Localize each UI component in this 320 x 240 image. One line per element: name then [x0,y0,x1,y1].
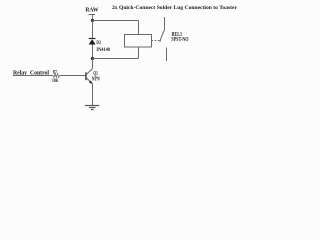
svg-text:D3: D3 [96,40,101,46]
transistor Q1 collector diagonal [86,69,92,75]
wire diode anode down to junction 2 [92,45,94,59]
junction at RAW node [91,19,94,22]
transistor Q1 emitter arrow [89,81,93,84]
svg-text:2x Quick-Connect Solder Lug Co: 2x Quick-Connect Solder Lug Connection t… [112,5,238,11]
relay REL1 coil box [125,35,152,48]
relay actuation dashed link [152,40,160,42]
svg-text:IN4148: IN4148 [96,47,110,53]
svg-text:NPN: NPN [92,77,100,83]
transistor Q1 emitter diagonal [86,78,92,84]
relay contact top terminal (solder lug) [164,17,166,29]
diode D3 cathode bar [89,38,96,40]
wire resistor to transistor base [60,75,86,77]
wire down into relay coil top [138,21,140,35]
ground symbol bar 1 [85,105,99,107]
diode D3 triangle (anode, pointing up) [89,39,96,44]
relay contact bottom terminal (solder lug) [166,48,168,62]
ground symbol bar 3 [91,109,94,111]
wire junction 2 to relay coil bottom (horizontal) [93,58,139,60]
wire collector up to junction 2 [92,59,94,69]
transistor Q1 base bar [85,72,87,80]
svg-text:R7: R7 [53,69,57,75]
svg-text:RAW: RAW [85,8,98,14]
wire RAW junction to relay coil (horizontal) [93,20,139,22]
wire Relay_Control to resistor R7 [13,75,53,77]
svg-text:10K: 10K [52,78,59,84]
junction below diode [91,57,94,60]
relay contact blade [160,29,165,42]
resistor R7 zigzag [53,74,60,78]
wire relay coil bottom down [138,47,140,59]
svg-text:SPST-NO: SPST-NO [171,37,188,43]
wire emitter down to ground [92,84,94,106]
wire RAW junction down to diode cathode [92,21,94,39]
ground symbol bar 2 [89,107,96,109]
node RAW port tick [89,15,96,21]
